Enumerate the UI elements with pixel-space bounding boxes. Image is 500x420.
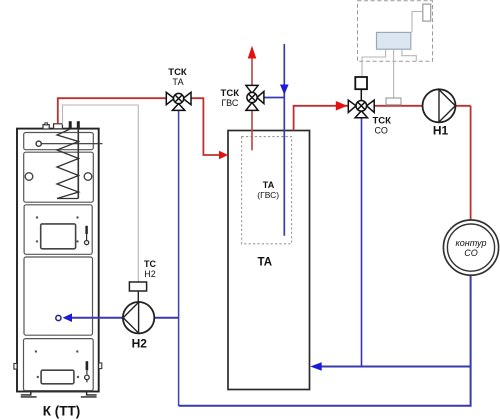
svg-text:ТА: ТА — [257, 257, 272, 269]
red DHW arrow up — [248, 46, 257, 59]
boiler top fitting left — [43, 123, 49, 129]
boiler panel3 screws — [36, 216, 79, 242]
boiler side tab right — [99, 363, 102, 369]
boiler return port circle — [56, 315, 61, 320]
blue pipe cold feed down — [283, 44, 285, 236]
boiler sensor pocket circle — [36, 141, 41, 146]
boiler panel 4 — [24, 257, 93, 335]
red pipe tank to H1 — [294, 106, 471, 131]
svg-text:СО: СО — [375, 125, 388, 135]
red arrow into TCK CO — [336, 101, 347, 111]
valve CO stem — [360, 89, 362, 100]
blue pipe GVS valve link — [264, 97, 284, 99]
buffer tank TA — [228, 131, 310, 390]
kontur CO heating circuit — [443, 220, 498, 275]
svg-text:(ГВС): (ГВС) — [257, 190, 279, 200]
wire display to TCK CO actuator — [362, 49, 386, 77]
controller dashed box — [358, 1, 433, 62]
svg-text:ТА: ТА — [263, 180, 275, 190]
wire display right branch — [402, 49, 416, 61]
blue arrow into boiler — [63, 313, 72, 322]
valve TCK TA — [166, 92, 191, 110]
blue pipe into tank right — [322, 366, 471, 368]
svg-text:Н2: Н2 — [132, 337, 148, 351]
boiler supply fitting — [54, 124, 63, 129]
blue pipe TCK TA return drop — [178, 103, 180, 406]
svg-text:ГВС: ГВС — [221, 98, 239, 108]
blue pipe TCK CO drop — [361, 118, 363, 367]
svg-text:К (ТТ): К (ТТ) — [43, 404, 80, 419]
wire display to pipe sensor — [393, 49, 395, 97]
valve CO actuator — [355, 77, 367, 89]
controller side module — [423, 4, 431, 21]
boiler upper door latch — [85, 226, 89, 245]
red pipe boiler to TCK TA valve — [58, 98, 167, 124]
boiler sensor pocket stub line — [41, 143, 102, 145]
boiler upper door — [41, 224, 76, 249]
svg-text:СО: СО — [464, 248, 477, 258]
boiler side port left — [25, 173, 33, 181]
TC H2 sensor box — [129, 282, 146, 291]
pipe sensor box on supply — [386, 98, 401, 105]
boiler panel5 screws — [35, 350, 80, 378]
svg-text:ТС: ТС — [144, 259, 156, 269]
red arrow into tank — [219, 151, 228, 160]
wire module to display — [412, 12, 423, 33]
boiler panel 1 — [24, 133, 94, 150]
boiler panel 5 — [24, 339, 94, 391]
controller display — [377, 32, 411, 49]
boiler side port right — [84, 173, 92, 181]
boiler side tab left — [14, 364, 17, 370]
boiler foot left — [21, 392, 37, 397]
red pipe tank DHW riser — [251, 59, 253, 151]
boiler panel 2 — [24, 152, 94, 202]
valve TCK GVS — [246, 85, 264, 110]
DHW coil zigzag — [57, 122, 79, 199]
blue arrow down — [280, 85, 289, 95]
DHW coil return pipe — [77, 122, 79, 199]
blue arrow into tank — [310, 362, 321, 371]
svg-text:контур: контур — [455, 238, 486, 248]
boiler panel 3 — [24, 205, 92, 255]
pump H1 — [423, 89, 456, 122]
boiler foot right — [81, 392, 97, 397]
boiler ash door — [41, 370, 74, 384]
red pipe drop to kontur CO — [470, 106, 472, 220]
svg-text:ТА: ТА — [172, 77, 183, 87]
DHW coil stub caps — [69, 121, 72, 129]
svg-text:Н2: Н2 — [144, 269, 156, 279]
pump H2 — [123, 302, 154, 333]
blue pipe H2 to boiler — [72, 317, 179, 319]
red pipe TCK TA to tank — [191, 98, 220, 155]
boiler lower latch — [85, 361, 90, 382]
valve TCK CO — [348, 100, 374, 118]
boiler K(TT) body — [17, 129, 99, 392]
blue pipe bottom return — [179, 276, 471, 406]
tank DHW dashed zone — [242, 137, 292, 244]
wire TC H2 sensor — [63, 105, 139, 282]
TC H2 stem — [137, 291, 139, 302]
svg-text:Н1: Н1 — [433, 124, 449, 138]
